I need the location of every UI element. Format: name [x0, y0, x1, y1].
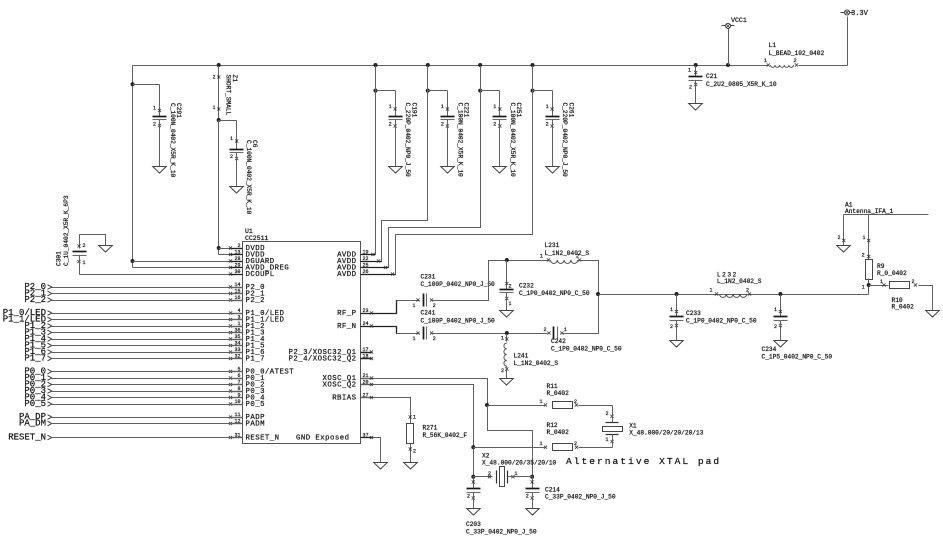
inductor L231 L_1N2_0402_S	[540, 242, 589, 263]
capacitor C242 C_1P0_0402_NP0_C_50	[543, 327, 621, 353]
svg-text:C233: C233	[686, 310, 701, 317]
svg-text:C301: C301	[56, 251, 63, 266]
svg-text:C_2U2_0805_X5R_K_10: C_2U2_0805_X5R_K_10	[706, 81, 777, 88]
svg-text:1: 1	[564, 327, 567, 333]
wire bus left drop to DGUARD/AVDD_DREG	[132, 66, 134, 268]
node R9 bottom	[867, 283, 871, 287]
wire XOSC_Q2 branch down to X2 left	[473, 448, 475, 477]
svg-text:1: 1	[670, 307, 673, 313]
svg-text:2: 2	[794, 58, 797, 64]
capacitor C234 C_1P5_0402_NP0_C_50	[762, 295, 833, 361]
wire XOSC_Q2 pin20 to R12	[361, 385, 474, 448]
left port flags	[3, 282, 243, 443]
capacitor C301 C_1U_0402_X5R_K_6P3	[56, 195, 113, 274]
svg-text:L_BEAD_102_0402: L_BEAD_102_0402	[769, 50, 825, 57]
svg-text:1: 1	[764, 58, 767, 64]
wire C221 drop to AVDD pin22	[361, 66, 428, 262]
svg-text:C_1U_0402_X5R_K_6P3: C_1U_0402_X5R_K_6P3	[63, 195, 70, 266]
svg-text:2: 2	[670, 324, 673, 330]
svg-text:1: 1	[412, 336, 415, 342]
capacitor C6 C_100N_0402_X5R_K_10	[219, 121, 259, 215]
svg-text:C_1P0_0402_NP0_C_50: C_1P0_0402_NP0_C_50	[519, 290, 590, 297]
svg-text:P2_2: P2_2	[246, 297, 265, 305]
inductor L1 L_BEAD_102_0402	[764, 42, 824, 67]
svg-text:2: 2	[576, 254, 579, 260]
inductor L232 L_1N2_0402_S	[709, 271, 761, 297]
node L241 top	[505, 331, 509, 335]
svg-text:2: 2	[543, 327, 546, 333]
wire AVDD pin19 lead	[361, 254, 376, 256]
svg-text:X_48.000/20/20/20/13: X_48.000/20/20/20/13	[629, 430, 704, 437]
svg-text:C_100N_0402_X5R_K_10: C_100N_0402_X5R_K_10	[456, 103, 463, 178]
svg-text:C_220P_0402_NP0_J_50: C_220P_0402_NP0_J_50	[561, 103, 568, 178]
svg-text:2: 2	[605, 411, 608, 417]
svg-text:1: 1	[493, 104, 496, 110]
capacitor C232 C_1P0_0402_NP0_C_50	[500, 261, 590, 318]
capacitor C233 C_1P0_0402_NP0_C_50	[670, 295, 757, 348]
svg-text:R_0402: R_0402	[547, 429, 570, 436]
svg-text:1: 1	[862, 285, 865, 291]
svg-text:Alternative XTAL pad: Alternative XTAL pad	[566, 456, 721, 467]
antenna A1 Antenna_IFA_1	[837, 202, 929, 260]
svg-text:L_1N2_0402_S: L_1N2_0402_S	[545, 250, 590, 257]
svg-text:1: 1	[539, 441, 542, 447]
svg-text:VCC1: VCC1	[731, 17, 747, 24]
resistor R11 R_0402	[488, 383, 613, 409]
svg-text:2: 2	[433, 303, 436, 309]
svg-text:2: 2	[912, 279, 915, 285]
wire C242 to RF node	[561, 295, 599, 334]
svg-text:Antenna_IFA_1: Antenna_IFA_1	[845, 208, 894, 215]
wire pin18 stub	[361, 358, 372, 360]
wire L231 to RF node	[578, 261, 599, 295]
svg-text:C_100N_0402_X5R_K_10: C_100N_0402_X5R_K_10	[169, 103, 176, 178]
svg-text:2: 2	[574, 399, 577, 405]
capacitor C251 C_100N_0402_X5R_K_10	[478, 89, 522, 177]
svg-text:2: 2	[862, 253, 865, 259]
svg-text:R271: R271	[423, 425, 438, 432]
svg-text:R_56K_0402_F: R_56K_0402_F	[423, 432, 468, 439]
svg-text:C_220P_0402_NP0_J_50: C_220P_0402_NP0_J_50	[404, 103, 411, 178]
svg-text:2: 2	[509, 284, 512, 290]
svg-text:2: 2	[389, 122, 392, 128]
svg-text:1: 1	[709, 288, 712, 294]
node R11 junction	[485, 403, 489, 407]
svg-text:2: 2	[413, 449, 416, 455]
svg-text:1: 1	[539, 399, 542, 405]
capacitor C291 C_100N_0402_X5R_K_10	[131, 82, 183, 177]
svg-text:RESET_N: RESET_N	[246, 435, 280, 443]
capacitor C241 C_100P_0402_NP0_J_50	[412, 310, 495, 343]
svg-text:2: 2	[230, 154, 233, 160]
svg-text:C_33P_0402_NP0_J_50: C_33P_0402_NP0_J_50	[466, 529, 537, 536]
svg-text:R11: R11	[547, 383, 558, 390]
svg-text:1: 1	[389, 104, 392, 110]
svg-text:1: 1	[688, 68, 691, 74]
svg-text:2: 2	[153, 122, 156, 128]
svg-text:2: 2	[774, 324, 777, 330]
crystal X2 X_48.000/20/35/20/10	[474, 453, 557, 487]
svg-text:RESET_N: RESET_N	[8, 433, 46, 443]
capacitor C261 C_220P_0402_NP0_J_50	[531, 89, 575, 177]
svg-text:C242: C242	[551, 338, 566, 345]
wire C301 to DCOUPL	[80, 274, 243, 276]
svg-text:C_1P0_0402_NP0_C_50: C_1P0_0402_NP0_C_50	[551, 346, 622, 353]
svg-text:XOSC_Q2: XOSC_Q2	[323, 382, 357, 390]
inductor L241 L_1N2_0402_S	[500, 334, 559, 386]
node X2 right	[530, 475, 534, 479]
capacitor C231 C_100P_0402_NP0_J_50	[412, 274, 495, 310]
wire C241 to C242	[431, 333, 548, 335]
node RF output	[596, 292, 600, 296]
node bus junctions	[217, 63, 221, 67]
svg-text:P1_7: P1_7	[24, 354, 46, 364]
capacitor C21 C_2U2_0805_X5R_K_10	[688, 66, 777, 111]
svg-text:C_33P_0402_NP0_J_50: C_33P_0402_NP0_J_50	[545, 494, 616, 501]
svg-text:SHORT_SMALL: SHORT_SMALL	[225, 75, 232, 116]
svg-text:P2_2: P2_2	[24, 295, 46, 305]
svg-text:1: 1	[774, 307, 777, 313]
svg-text:1: 1	[413, 415, 416, 421]
IC U1 right pin names and numbers	[289, 249, 396, 442]
svg-text:R12: R12	[547, 422, 558, 429]
svg-text:2: 2	[526, 494, 529, 500]
resistor R271 R_56K_0402_F	[404, 415, 468, 470]
svg-text:2: 2	[837, 235, 840, 241]
svg-text:2: 2	[746, 288, 749, 294]
svg-text:1: 1	[540, 254, 543, 260]
svg-text:3.3V: 3.3V	[851, 10, 869, 18]
svg-text:L241: L241	[514, 353, 529, 360]
svg-text:2: 2	[689, 85, 692, 91]
svg-text:2: 2	[493, 122, 496, 128]
svg-text:R9: R9	[877, 263, 885, 270]
wire C251 drop to AVDD pin25	[361, 66, 481, 268]
svg-text:C_100P_0402_NP0_J_50: C_100P_0402_NP0_J_50	[421, 318, 496, 325]
svg-text:P1_7: P1_7	[246, 356, 265, 364]
svg-text:C203: C203	[466, 521, 481, 528]
node C232 top	[505, 258, 509, 262]
svg-text:1: 1	[412, 303, 415, 309]
svg-text:PADM: PADM	[246, 421, 265, 429]
svg-text:1: 1	[441, 104, 444, 110]
svg-text:C231: C231	[421, 274, 436, 281]
svg-text:2: 2	[441, 122, 444, 128]
capacitor C191 C_220P_0402_NP0_J_50	[374, 89, 418, 177]
wire RBIAS pin27 to R271	[361, 398, 411, 418]
resistor R9 R_0_0402	[862, 253, 907, 291]
wire RF_N from pin24	[361, 327, 420, 334]
svg-text:C234: C234	[762, 346, 777, 353]
svg-text:P0_5: P0_5	[246, 401, 265, 409]
svg-text:L_1N2_0402_S: L_1N2_0402_S	[514, 360, 559, 367]
svg-text:CC2511: CC2511	[245, 235, 269, 242]
svg-text:R_0402: R_0402	[547, 390, 570, 397]
node X2 left	[471, 475, 475, 479]
svg-text:2: 2	[433, 336, 436, 342]
wire RF node to antenna network	[599, 294, 869, 296]
wire C191 drop to AVDD pin19	[375, 66, 377, 255]
svg-text:C21: C21	[706, 73, 717, 80]
wire C261 drop to AVDD pin26	[361, 66, 533, 275]
svg-text:RBIAS: RBIAS	[332, 395, 356, 403]
crystal X1 X_48.000/20/20/20/13	[603, 406, 704, 448]
power 3.3V	[841, 10, 869, 18]
svg-text:L1: L1	[769, 42, 777, 49]
wire C231 to L231	[431, 261, 549, 301]
svg-text:1: 1	[230, 136, 233, 142]
svg-text:C232: C232	[519, 283, 534, 290]
svg-text:GND Exposed: GND Exposed	[296, 435, 349, 443]
wire XOSC_Q1 pin21 to R11	[361, 379, 488, 406]
svg-text:X1: X1	[629, 423, 637, 430]
svg-text:DCOUPL: DCOUPL	[246, 271, 275, 279]
wire Z1 to DVDD pins	[218, 121, 220, 255]
svg-text:2: 2	[501, 368, 504, 374]
wire to AVDD_DREG pin29	[133, 267, 243, 269]
ground GND exposed	[374, 463, 388, 470]
capacitor C221 C_100N_0402_X5R_K_10	[426, 89, 470, 177]
svg-text:U1: U1	[245, 228, 253, 235]
node R12 junction	[471, 445, 475, 449]
wire GND exposed pin37	[361, 438, 381, 463]
svg-text:PA_DM: PA_DM	[19, 419, 46, 429]
svg-text:1: 1	[83, 260, 86, 266]
svg-text:2: 2	[83, 243, 86, 249]
svg-text:2: 2	[212, 75, 215, 81]
svg-text:RF_N: RF_N	[337, 323, 356, 331]
capacitor C203 C_33P_0402_NP0_J_50	[466, 477, 537, 536]
svg-text:1: 1	[153, 106, 156, 112]
svg-text:1: 1	[862, 235, 865, 241]
node C234 top	[778, 292, 782, 296]
svg-text:AVDD: AVDD	[337, 271, 357, 279]
IC U1 left pin names and numbers	[229, 243, 294, 443]
svg-text:L231: L231	[545, 242, 560, 249]
capacitor C214 C_33P_0402_NP0_J_50	[526, 477, 616, 516]
svg-text:C214: C214	[545, 487, 560, 494]
svg-text:C241: C241	[421, 310, 436, 317]
svg-text:C_100N_0402_X5R_K_10: C_100N_0402_X5R_K_10	[245, 140, 252, 215]
wire pin17 stub	[361, 352, 372, 354]
svg-text:1: 1	[605, 437, 608, 443]
svg-text:P0_5: P0_5	[24, 399, 46, 409]
svg-text:2: 2	[546, 122, 549, 128]
svg-text:1: 1	[501, 336, 504, 342]
svg-text:RF_P: RF_P	[337, 310, 357, 318]
svg-text:C_1P0_0402_NP0_C_50: C_1P0_0402_NP0_C_50	[686, 318, 757, 325]
svg-text:C_100N_0402_X5R_K_10: C_100N_0402_X5R_K_10	[509, 103, 516, 178]
svg-text:R_0402: R_0402	[892, 304, 915, 311]
wire R11 node to X2 right branch	[488, 406, 533, 477]
wire to DGUARD pin28	[133, 261, 243, 263]
svg-text:1: 1	[509, 301, 512, 307]
svg-text:C_1P5_0402_NP0_C_50: C_1P5_0402_NP0_C_50	[762, 354, 833, 361]
jumper Z1 SHORT_SMALL	[212, 66, 237, 121]
IC U1 CC2511	[243, 228, 361, 444]
power VCC1	[722, 17, 747, 66]
svg-text:2: 2	[467, 494, 470, 500]
svg-text:2: 2	[574, 441, 577, 447]
svg-text:P2_4/XOSC32_Q2: P2_4/XOSC32_Q2	[289, 356, 357, 364]
AVDD pin connection marks	[371, 253, 374, 256]
svg-text:1: 1	[515, 471, 518, 477]
svg-text:1: 1	[212, 105, 215, 111]
svg-text:L_1N2_0402_S: L_1N2_0402_S	[717, 278, 762, 285]
node Z1/C6 junction	[217, 118, 221, 122]
wire top power bus	[133, 65, 768, 67]
node DGUARD junction	[131, 259, 135, 263]
wire RF_P from pin23	[361, 301, 420, 314]
resistor R12 R_0402	[474, 422, 613, 451]
resistor R10 R_0402	[869, 279, 940, 317]
svg-text:R_0_0402: R_0_0402	[877, 270, 907, 277]
svg-text:C_100P_0402_NP0_J_50: C_100P_0402_NP0_J_50	[421, 281, 496, 288]
node C233 top	[675, 292, 679, 296]
svg-text:1: 1	[546, 104, 549, 110]
wire RF line up to R9/R10 node	[868, 286, 870, 295]
svg-text:X_48.000/20/35/20/10: X_48.000/20/35/20/10	[482, 459, 557, 466]
